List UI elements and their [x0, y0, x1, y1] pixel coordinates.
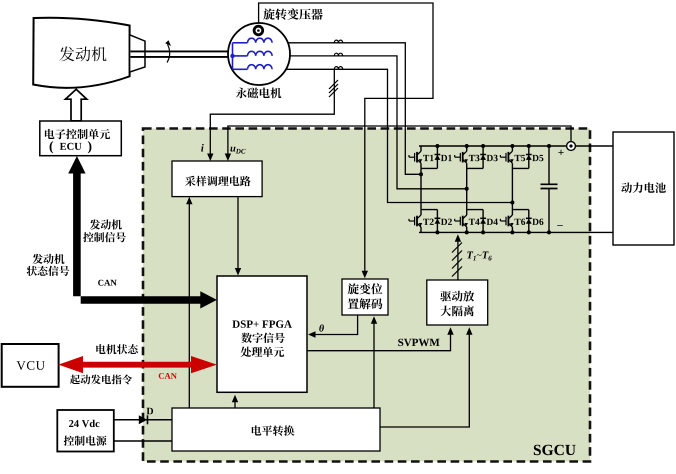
label + — [558, 150, 563, 155]
wire: sampling circuit to DSP — [235, 197, 241, 276]
box: 24Vdc control supply — [57, 410, 114, 452]
diode D6 — [526, 210, 532, 233]
IGBT T1 — [409, 146, 422, 168]
box: resolver decoder 旋变位置解码 — [342, 279, 388, 315]
rotation arrow on shaft — [165, 40, 171, 62]
label 动力电池 — [621, 182, 666, 193]
label 发动机 — [60, 47, 107, 62]
label 24 Vdc / 控制电源 — [64, 420, 107, 446]
cell bottom rail T3/D3 — [467, 167, 483, 169]
label 发动机 控制信号 — [83, 219, 126, 242]
shaft — [131, 51, 229, 57]
wire phase A (motor to T1 leg) — [272, 43, 421, 175]
resolver (旋转变压器) symbol — [253, 25, 264, 36]
wire phase C (motor to T5 leg) — [272, 69, 512, 202]
label theta — [319, 325, 324, 332]
label 发动机 状态信号 — [27, 254, 70, 276]
label 旋转变压器 — [263, 8, 323, 19]
slash marks on gate drive bundle — [452, 243, 462, 277]
thick CAN arrow: engine control/status (black) — [68, 156, 217, 309]
label T4 D4 — [469, 219, 498, 225]
junction dots leg 3 — [510, 144, 530, 234]
wire: SVPWM from DSP to gate driver — [307, 327, 454, 351]
label 起动发电指令 — [70, 375, 132, 385]
diode D4 — [480, 210, 486, 233]
label 电子控制单元 / （ECU） — [45, 129, 110, 154]
box: gate driver 驱动放大隔离 — [427, 280, 488, 325]
label 电机状态 — [96, 344, 138, 354]
label CAN (black) — [98, 280, 117, 286]
label 驱动放 大隔离 — [440, 291, 474, 317]
cell bottom rail T5/D5 — [512, 167, 528, 169]
label SGCU — [534, 445, 576, 456]
cell top rail T6/D6 — [512, 209, 528, 211]
label DSP+FPGA 数字信号 处理单元 — [232, 320, 292, 357]
wire: level shifter to resolver decoder — [371, 316, 377, 408]
PM machine circle (永磁电机) — [228, 23, 290, 85]
wire node to battery + — [575, 145, 613, 147]
label 旋变位 置解码 — [348, 283, 383, 309]
label u_DC — [230, 147, 245, 154]
label T1 D1 — [423, 155, 452, 161]
label 采样调理电路 — [185, 176, 251, 186]
junction dots leg 1 — [435, 144, 439, 234]
phase leg 1 — [420, 168, 422, 209]
wire phase B (motor to T3 leg) — [272, 56, 467, 189]
junction dots leg 2 — [465, 144, 485, 234]
label - — [557, 224, 563, 227]
wire: 24Vdc supply to level shifter (top, with diode) — [114, 419, 173, 421]
wire: level shifter to sampling circuit — [186, 197, 192, 408]
phase leg 2 — [466, 168, 468, 209]
cell top rail T2/D2 — [421, 209, 437, 211]
IGBT T6 — [500, 210, 513, 233]
label T6 D6 — [515, 219, 544, 225]
IGBT T2 — [409, 210, 422, 233]
wire: level shifter to DSP — [232, 395, 238, 408]
IGBT T4 — [455, 210, 468, 233]
label D (diode) — [147, 408, 154, 415]
box: VCU — [2, 344, 59, 387]
thick CAN arrow: VCU to DSP (red, double-headed) — [58, 356, 217, 373]
wire: 24Vdc supply to level shifter (bottom) — [114, 440, 173, 442]
label CAN (red) — [159, 373, 177, 379]
IGBT T5 — [500, 146, 513, 168]
label T2 D2 — [423, 219, 452, 225]
label 电平转换 — [252, 425, 295, 436]
box: sampling/conditioning 采样调理电路 — [172, 161, 262, 197]
stator winding neutral bus (blue) — [230, 43, 234, 70]
label SVPWM — [398, 339, 439, 347]
phase junction dots — [419, 172, 514, 204]
engine coupling — [130, 35, 145, 72]
IGBT T3 — [455, 146, 468, 168]
label i (current) — [201, 144, 204, 152]
diode D5 — [526, 146, 532, 168]
diode D2 — [435, 210, 441, 233]
slash marks (3-wire bundle) on current feedback — [329, 80, 338, 97]
DC bus - (bottom rail) — [419, 231, 613, 233]
diode D1 — [435, 146, 441, 168]
phase leg 3 — [511, 168, 513, 209]
wire: level shifter to gate driver — [380, 327, 473, 427]
DC+ terminal node — [567, 142, 576, 151]
label T3 D3 — [469, 155, 498, 161]
wire: resolver signal to decoder — [259, 3, 433, 278]
label T1~T6 — [467, 252, 491, 261]
diode D3 — [480, 146, 486, 168]
label 永磁电机 — [236, 88, 282, 99]
hollow arrow ECU to engine — [65, 89, 86, 121]
label T5 D5 — [515, 155, 544, 161]
box: ECU 电子控制单元 — [40, 121, 122, 156]
wire: current feedback i to sampling circuit — [207, 69, 334, 161]
wire: decoder theta to DSP — [308, 315, 358, 338]
current sensors on phase wires — [334, 40, 342, 69]
box: DSP+FPGA unit — [217, 276, 307, 392]
box: battery 动力电池 — [613, 132, 674, 245]
SGCU enclosure (dashed green region) — [143, 129, 590, 462]
stator coils (blue) — [233, 38, 273, 69]
cell top rail T4/D4 — [467, 209, 483, 211]
wire: DC voltage u_DC sense from + node to sampling circuit — [225, 126, 571, 161]
diode D — [139, 415, 148, 424]
label VCU — [17, 361, 45, 370]
DC bus + (top rail) — [419, 145, 567, 147]
wire: gate drive T1~T6 to bridge — [455, 234, 461, 281]
box: level shifter 电平转换 — [172, 408, 380, 451]
DC link capacitor — [541, 144, 558, 234]
engine block — [33, 18, 129, 88]
cell bottom rail T1/D1 — [421, 167, 437, 169]
